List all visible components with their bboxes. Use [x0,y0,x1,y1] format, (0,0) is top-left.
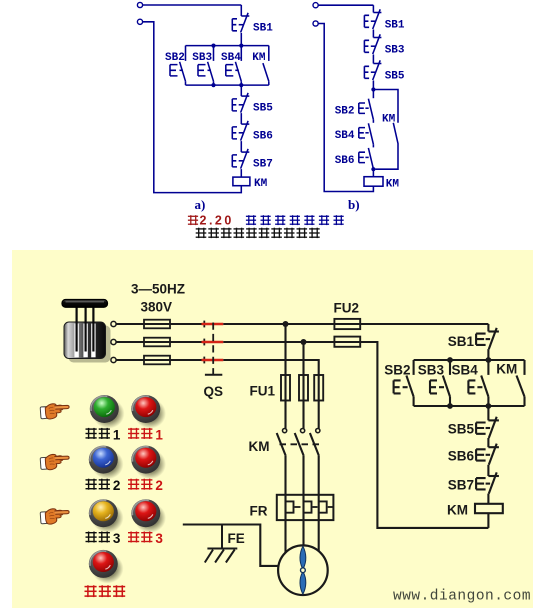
svg-text:b): b) [348,197,360,212]
svg-text:SB7: SB7 [448,478,474,493]
wire coil to return [487,513,489,528]
caption title (navy) 多地点控制电路 [246,215,256,225]
svg-text:SB3: SB3 [385,45,405,57]
junction bottom rail SB3 (control) [447,403,453,409]
svg-text:SB3: SB3 [418,363,445,378]
pushbutton SB5 NC (circuit a) [232,93,249,113]
svg-text:380V: 380V [141,300,173,315]
thermal relay FR heater pole 2 [304,501,312,512]
svg-text:KM: KM [249,439,270,454]
pushbutton SB4 NO (circuit b) [359,123,374,144]
wire L3 to FU1 [223,360,318,375]
contact KM self-hold blade (circuit b) [375,123,398,169]
pushbutton SB1 NC (control) [487,324,489,332]
junction on top rail at SB3 (circuit a) [211,44,215,48]
terminal L1 [111,321,116,326]
svg-text:SB2: SB2 [384,363,410,378]
svg-text:2: 2 [113,478,121,493]
wire left return (circuit b) [318,24,373,192]
svg-text:SB4: SB4 [335,130,355,142]
pushbutton start 1 (green) [90,395,125,429]
wire SB5 to SB6 (circuit a) [240,113,242,124]
hand pointer 2 [40,454,69,469]
svg-text:a): a) [195,197,206,212]
label stop 1 [128,428,139,439]
wire SB1 drop (circuit a) [240,5,242,16]
svg-text:SB6: SB6 [448,449,475,464]
contactor KM main contact pole 2 [295,429,305,456]
label start 3 [86,532,97,543]
svg-text:SB1: SB1 [385,20,405,32]
junction node bottom (circuit b) [371,167,375,171]
wire L2 left segment [116,341,204,343]
terminal node 2 (circuit a) [137,19,142,24]
motor M [278,545,328,595]
caption subtitle (black) 多地点控制电路动画演示 [196,228,207,238]
wire SB4-SB6 (circuit b) [372,144,374,147]
pushbutton SB2 NO (control) [394,360,414,406]
switch QS linkage (dashed) [212,323,214,375]
wire SB5 to node (circuit b) [372,81,374,99]
wire SB1 to block rail [487,349,489,360]
pushbutton start 3 (yellow) [89,499,124,533]
switch QS hinge tick L2 [203,339,205,346]
svg-text:SB6: SB6 [253,131,273,143]
svg-text:1: 1 [155,427,163,442]
fuse on L2 [144,338,170,347]
wire FU1 phase 2 drop [302,342,304,428]
fuse on L1 [144,320,170,329]
junction on top rail at SB4 (circuit a) [239,44,243,48]
svg-text:FE: FE [228,531,245,546]
svg-text:SB5: SB5 [448,422,475,437]
svg-text:SB1: SB1 [253,23,273,35]
pushbutton start 2 (blue) [89,446,124,480]
svg-text:SB4: SB4 [452,363,479,378]
switch QS handle bar [205,374,222,376]
fuse FU2 upper [334,319,360,329]
pushbutton SB2 NO branch (circuit a) [170,46,186,86]
wire PE to motor frame [183,525,278,566]
pushbutton SB6 NC (control) [476,444,499,465]
pushbutton SB7 NC (circuit a) [232,149,249,169]
ground FE symbol [205,525,238,563]
wire SB6 to SB7 (circuit a) [240,141,242,152]
switch QS hinge tick L1 [203,321,205,328]
pushbutton SB4 NO (control) [468,360,488,406]
junction L1 to FU1 [283,321,289,327]
coil KM (circuit b) [364,177,383,187]
svg-text:QS: QS [204,384,224,399]
junction top rail SB4 (control) [486,357,492,363]
wire block bottom rail (control) [414,405,525,407]
pushbutton SB4 NO branch (circuit a) [226,46,242,86]
terminal L2 [111,339,116,344]
pushbutton SB3 NC (circuit b) [364,34,381,54]
thermal relay FR heater pole 3 [319,501,327,512]
svg-text:KM: KM [382,114,396,126]
wire SB7 to coil (circuit a) [240,169,242,177]
wire top feed (circuit a) [143,4,242,6]
fuse on L3 [144,356,170,365]
pushbutton stop 3 (red) [131,499,166,533]
svg-text:3: 3 [113,531,121,546]
wire FU1 phase 1 drop [284,324,286,428]
label master stop [85,585,97,597]
wire block top rail (control) [414,359,525,361]
terminal node 2 (circuit b) [313,21,318,26]
pushbutton SB7 NC (control) [476,472,499,493]
pushbutton SB1 NC (circuit a) [232,13,249,33]
wire SB2-SB4 (circuit b) [372,120,374,123]
svg-text:2: 2 [155,478,163,493]
wire pole 3 KM to motor [318,456,320,551]
contact KM self-hold branch (circuit a) [263,46,269,86]
svg-text:2.20: 2.20 [200,214,234,228]
wire block to SB5 (circuit a) [240,85,242,96]
pushbutton SB6 NC (circuit a) [232,121,249,141]
junction L2 to FU1 [301,339,307,345]
fuse FU1 phase 3 [314,375,323,401]
contactor KM linkage (dashed) [280,443,323,445]
svg-text:SB6: SB6 [335,155,355,167]
svg-text:FU2: FU2 [334,301,360,316]
terminal node 1 (circuit a) [137,2,142,7]
label stop 2 [128,479,139,490]
disconnect switch icon (3-phase) [62,300,111,363]
junction node top (circuit b) [371,87,375,91]
svg-text:KM: KM [386,179,400,191]
wire drop to SB1 (circuit b) [372,5,374,12]
wire L1 left segment [116,323,204,325]
pushbutton stop 1 (red) [131,395,166,429]
svg-text:FR: FR [250,504,268,519]
panel background [12,250,533,608]
junction top rail SB3 (control) [447,357,453,363]
switch QS blade L2 (closed, red) [202,341,224,344]
svg-text:3—50HZ: 3—50HZ [131,282,185,297]
svg-text:KM: KM [254,178,268,190]
pushbutton SB3 NO branch (circuit a) [198,46,214,86]
switch QS blade L3 (closed, red) [202,359,224,362]
svg-text:1: 1 [113,427,121,442]
wire SB1-SB3 (circuit b) [372,30,374,38]
wire pole 2 KM to motor [302,456,304,546]
svg-text:SB5: SB5 [253,103,273,115]
thermal relay FR heater pole 1 [286,501,294,512]
hand pointer 1 [40,404,69,419]
label stop 3 [128,532,139,543]
svg-text:SB2: SB2 [165,52,185,64]
contactor KM main contact pole 1 [277,429,287,456]
svg-text:SB4: SB4 [221,52,241,64]
wire SB7 to coil [487,494,489,504]
svg-text:SB7: SB7 [253,159,273,171]
coil KM (control) [475,504,503,513]
wire FU1 phase 3 drop [318,375,320,428]
pushbutton SB2 NO (circuit b) [359,99,374,120]
wire L2 right segment to control drop [223,342,488,528]
wire left return (circuit a) [143,22,242,193]
svg-text:KM: KM [252,52,266,64]
fuse FU2 lower [334,337,360,347]
pushbutton master stop (red) [89,550,124,584]
wire KM branch top (circuit b) [373,90,398,123]
svg-text:KM: KM [496,362,517,377]
pushbutton stop 2 (red) [131,446,166,480]
contact KM self-hold (control) [517,360,525,406]
switch QS hinge tick L3 [203,357,205,364]
pushbutton SB1 NC (circuit b) [364,9,381,29]
svg-text:SB1: SB1 [448,334,475,349]
motor propeller blades (blue) [300,546,306,594]
junction on bottom rail at SB3 (circuit a) [211,83,215,87]
svg-text:www.diangon.com: www.diangon.com [393,589,531,605]
wire SB1 to block (circuit a) [240,33,242,46]
contactor KM main contact pole 3 [310,429,320,456]
switch QS blade L1 (closed, red) [202,323,224,326]
label start 2 [86,479,97,490]
thermal relay FR box [277,495,334,520]
svg-text:SB3: SB3 [192,52,212,64]
junction bottom rail SB4 (control) [486,403,492,409]
wire SB6 to node (circuit b) [372,169,374,177]
wire parallel block top rail (circuit a) [186,45,269,47]
terminal L3 [111,357,116,362]
wire rail to SB5 [487,406,489,420]
caption fig number (red) 图2.20 [188,215,198,225]
wire SB6-SB7 [487,465,489,476]
terminal node 1 (circuit b) [313,3,318,8]
label start 1 [86,428,97,439]
fuse FU1 phase 1 [281,375,290,401]
wire L3 left segment [116,359,204,361]
wire pole 1 KM to motor [284,456,286,553]
svg-text:FU1: FU1 [250,384,276,399]
junction on bottom rail at SB4 (circuit a) [239,83,243,87]
pushbutton SB5 NC (control) [476,417,499,438]
wire parallel block bottom rail (circuit a) [186,84,269,86]
pushbutton SB3 NO (control) [430,360,450,406]
svg-text:SB5: SB5 [385,71,405,83]
fuse FU1 phase 2 [299,375,308,401]
coil KM (circuit a) [233,177,250,186]
wire L1 right segment [223,323,488,325]
thermal relay FR link dashes [295,506,333,508]
pushbutton SB5 NC (circuit b) [364,60,381,80]
hand pointer 3 [40,509,69,524]
svg-text:3: 3 [155,531,163,546]
wire top feed (circuit b) [318,4,373,6]
svg-text:SB2: SB2 [335,106,355,118]
wire SB3-SB5 (circuit b) [372,55,374,64]
svg-text:KM: KM [447,503,468,518]
wire SB5-SB6 [487,438,489,447]
pushbutton SB6 NO (circuit b) [359,148,374,169]
